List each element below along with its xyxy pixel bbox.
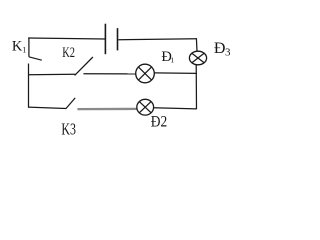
svg-text:3: 3 [225,47,231,59]
svg-text:K3: K3 [61,119,76,138]
svg-text:K2: K2 [62,45,75,61]
svg-text:Đ: Đ [214,40,226,57]
svg-text:Đ2: Đ2 [151,114,167,131]
